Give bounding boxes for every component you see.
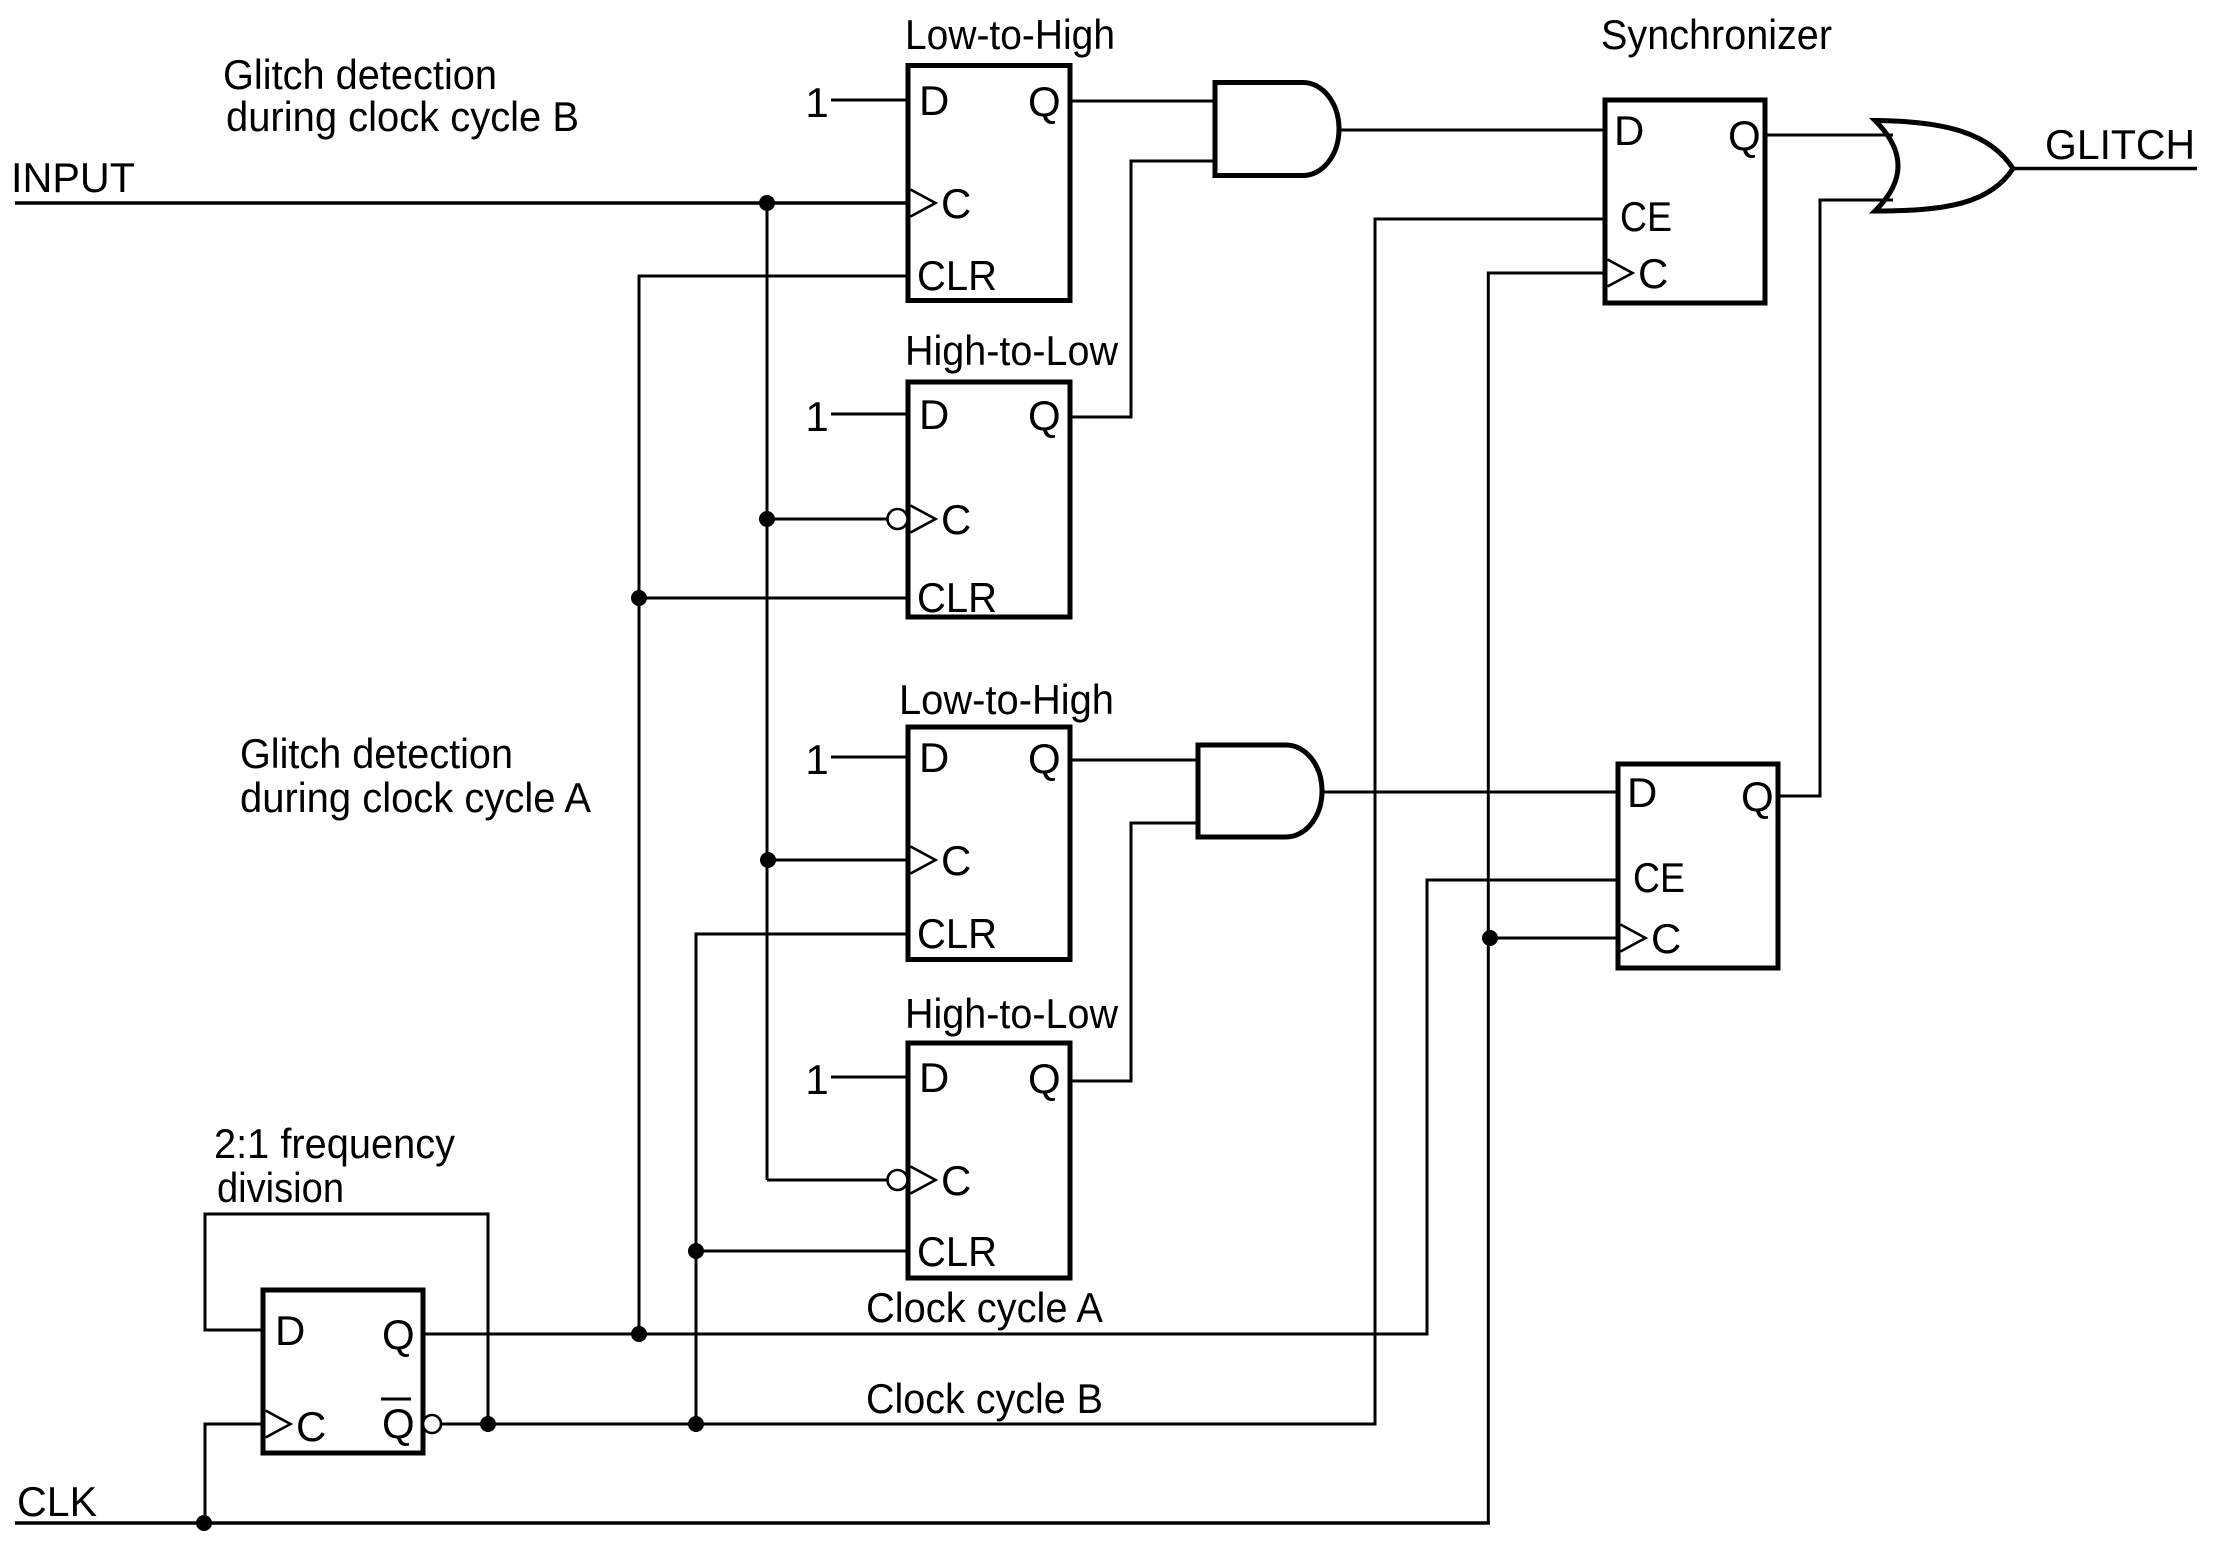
svg-text:Q: Q	[1028, 735, 1061, 782]
svg-text:Q: Q	[1741, 773, 1774, 820]
flip-flop FF4 High-to-Low (cycle A)	[888, 990, 1119, 1278]
wire: branch to FF4.CLR	[696, 1250, 908, 1253]
wire: FF5.C from CLK	[205, 1424, 263, 1523]
wire: clock cycle A net to FF1.CLR and FF2.CLR	[639, 276, 908, 1334]
junction: CLK tap to FF5.C	[196, 1515, 212, 1531]
svg-text:CLR: CLR	[917, 252, 997, 299]
wire: constant 1 to FF3.D	[831, 756, 908, 759]
junction: CLK to SFF2.C	[1482, 930, 1498, 946]
OR gate OR1	[1875, 121, 2013, 212]
flip-flop FF5 2:1 frequency divider	[263, 1290, 441, 1453]
svg-text:Q: Q	[1028, 1055, 1061, 1102]
svg-text:Glitch detection: Glitch detection	[240, 730, 513, 777]
label: Glitch detection during clock cycle B	[223, 51, 579, 140]
label: 2:1 frequency division	[214, 1120, 455, 1211]
wire: FF2.Q up to AND1 input b	[1070, 161, 1215, 417]
svg-text:D: D	[919, 391, 949, 438]
flip-flop FF3 Low-to-High (cycle A)	[899, 676, 1114, 960]
svg-text:Glitch detection: Glitch detection	[223, 51, 497, 98]
junction: INPUT to FF3.C	[760, 852, 776, 868]
wire: FF3.Q to AND2 input a	[1070, 759, 1198, 762]
wire: CLK net	[15, 1521, 1490, 1524]
svg-text:C: C	[941, 837, 971, 884]
svg-text:CLK: CLK	[17, 1478, 97, 1525]
flip-flop FF2 High-to-Low (cycle B)	[888, 327, 1119, 621]
junction: cycle B vertical joins Qbar line	[688, 1416, 704, 1432]
AND gate AND2	[1198, 745, 1322, 837]
svg-text:C: C	[941, 1157, 971, 1204]
wire: constant 1 to FF2.D	[831, 413, 908, 416]
svg-text:during clock cycle B: during clock cycle B	[226, 93, 579, 140]
wire: INPUT vertical branch to FF2.C and FF3.C and FF4.C	[766, 203, 769, 1180]
svg-text:INPUT: INPUT	[11, 154, 135, 201]
svg-text:division: division	[217, 1164, 344, 1211]
flip-flop SFF2 synchronizer (cycle A)	[1618, 764, 1778, 968]
wire: clock cycle B line from FF5.Qbar to SFF1.CE	[441, 219, 1605, 1424]
junction: INPUT branch	[759, 195, 775, 211]
svg-text:Clock cycle B: Clock cycle B	[866, 1375, 1103, 1422]
svg-text:Q: Q	[1028, 78, 1061, 125]
wire: OR output GLITCH	[2013, 167, 2197, 170]
wire: FF5 feedback Qbar to D	[205, 1214, 488, 1424]
svg-text:C: C	[1651, 915, 1681, 962]
svg-text:Q: Q	[382, 1400, 415, 1447]
junction: Qbar feedback tap	[480, 1416, 496, 1432]
svg-text:Low-to-High: Low-to-High	[899, 676, 1114, 723]
svg-text:1: 1	[805, 736, 828, 783]
wire: FF1.Q to AND1 input a	[1070, 100, 1215, 103]
svg-text:C: C	[1638, 250, 1668, 297]
junction: cycle A to FF2.CLR	[631, 590, 647, 606]
svg-text:CLR: CLR	[917, 1228, 997, 1275]
svg-text:Q: Q	[1028, 392, 1061, 439]
junction: INPUT to FF2.C	[759, 511, 775, 527]
svg-text:Q: Q	[382, 1311, 415, 1358]
svg-text:CE: CE	[1620, 193, 1672, 240]
svg-text:Clock cycle A: Clock cycle A	[866, 1284, 1103, 1331]
svg-text:High-to-Low: High-to-Low	[905, 990, 1119, 1037]
label: Glitch detection during clock cycle A	[240, 730, 591, 821]
wire: INPUT net horizontal to FF1.C	[15, 201, 908, 204]
svg-text:1: 1	[805, 79, 828, 126]
svg-text:1: 1	[805, 393, 828, 440]
junction: cycle A vertical joins Q line	[631, 1326, 647, 1342]
wire: CLK branch to SFF2.C	[1490, 937, 1618, 940]
wire: clock cycle B net to FF3.CLR and FF4.CLR	[696, 934, 908, 1424]
flip-flop FF1 Low-to-High (cycle B)	[905, 11, 1115, 301]
wire: SFF2.Q up to OR input b	[1778, 200, 1893, 796]
wire: branch to FF2.CLR	[639, 597, 908, 600]
flip-flop SFF1 synchronizer (cycle B)	[1605, 100, 1765, 303]
wire: SFF1.Q to OR input a	[1765, 134, 1893, 137]
svg-text:D: D	[1614, 107, 1644, 154]
svg-text:C: C	[941, 496, 971, 543]
svg-text:D: D	[1627, 769, 1657, 816]
svg-text:Synchronizer: Synchronizer	[1601, 11, 1832, 58]
wire: clock cycle A line from FF5.Q to SFF2.CE	[423, 880, 1618, 1334]
wire: INPUT to FF3.C	[767, 859, 908, 862]
svg-text:1: 1	[805, 1056, 828, 1103]
svg-text:2:1 frequency: 2:1 frequency	[214, 1120, 455, 1167]
wire: constant 1 to FF4.D	[831, 1076, 908, 1079]
wire: AND1 output to SFF1.D	[1339, 129, 1605, 132]
svg-text:C: C	[296, 1403, 326, 1450]
svg-text:GLITCH: GLITCH	[2045, 121, 2195, 168]
svg-text:CE: CE	[1633, 854, 1685, 901]
wire: FF4.Q up to AND2 input b	[1070, 823, 1198, 1081]
svg-text:C: C	[941, 180, 971, 227]
svg-text:D: D	[275, 1307, 305, 1354]
svg-text:D: D	[919, 77, 949, 124]
svg-text:Q: Q	[1728, 112, 1761, 159]
junction: cycle B to FF4.CLR	[688, 1243, 704, 1259]
svg-text:Low-to-High: Low-to-High	[905, 11, 1115, 58]
wire: INPUT to FF2.C bubble	[767, 518, 888, 521]
svg-text:D: D	[919, 734, 949, 781]
wire: AND2 output to SFF2.D	[1322, 791, 1618, 794]
svg-text:CLR: CLR	[917, 910, 997, 957]
wire: constant 1 to FF1.D	[831, 99, 908, 102]
svg-text:during clock cycle A: during clock cycle A	[240, 774, 591, 821]
svg-text:D: D	[919, 1054, 949, 1101]
wire: INPUT to FF4.C bubble	[767, 1179, 888, 1182]
AND gate AND1	[1215, 83, 1339, 176]
wire: CLK vertical riser to SFF1.C	[1488, 273, 1605, 1523]
svg-text:High-to-Low: High-to-Low	[905, 327, 1119, 374]
svg-text:CLR: CLR	[917, 574, 997, 621]
